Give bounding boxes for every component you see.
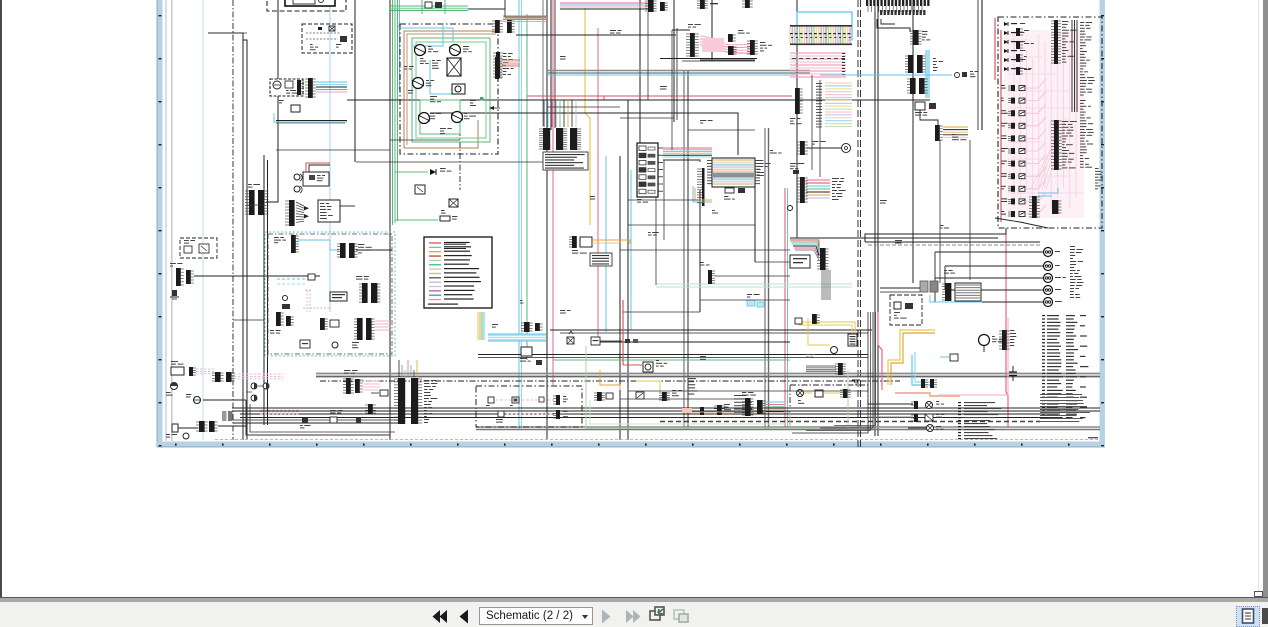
legend swatch 12: [429, 290, 441, 292]
wire v fine x672: [671, 30, 673, 150]
conn small x708: [708, 270, 712, 284]
monitor box top-left: [285, 0, 335, 6]
alternator sym: [183, 433, 189, 439]
orange jog: [600, 370, 620, 390]
lavender bundle bl: [260, 409, 300, 411]
wire h fine y225: [628, 224, 755, 226]
switch S9: [539, 397, 544, 402]
wire h green pair right: [656, 283, 852, 285]
gray connector cluster: [920, 281, 928, 292]
top connector strips x870: [866, 0, 868, 6]
stacked connectors mid: [908, 55, 914, 73]
legend swatch 5: [429, 259, 441, 261]
notes list center-bottom: [958, 402, 961, 403]
wire h fine y107: [547, 106, 620, 108]
small parts left of stack: [795, 88, 800, 114]
right gray bar: [1263, 0, 1268, 597]
wire v green mid: [526, 14, 528, 360]
green wire tap b: [395, 219, 438, 221]
wire v15: [796, 0, 798, 238]
fan connector: [820, 248, 826, 270]
ground sym mid: [852, 379, 860, 381]
page icon: [1243, 609, 1254, 623]
bulkhead connector bank: [398, 378, 405, 424]
scroll corner notch: [1254, 591, 1263, 597]
lamp L3: [927, 425, 934, 432]
horn trio: [251, 383, 257, 389]
legend swatch 3: [429, 251, 441, 253]
exit wires below box: [865, 228, 1006, 242]
blue path mid: [912, 355, 930, 385]
green node: [480, 97, 484, 101]
round connectors column: [1044, 248, 1053, 257]
wire h fine y312: [623, 311, 700, 313]
wire jog left mid: [247, 204, 264, 206]
right scrollbar light line: [1258, 0, 1259, 597]
cyan stub right: [820, 74, 952, 76]
connector col cab1: [291, 235, 296, 253]
lavender dashed wires in box: [496, 399, 556, 401]
enclosure small left dashed: [180, 238, 217, 258]
first page button: [440, 610, 448, 623]
solenoid B1: [415, 45, 426, 56]
sheet inner frame: [165, 0, 167, 441]
engine connector strip: [496, 52, 500, 78]
sensor X2: [449, 199, 458, 207]
connector bottom of box: [1032, 196, 1037, 218]
wire v fine x656: [655, 197, 657, 285]
resistor R3: [440, 216, 450, 221]
cyan band wide: [488, 334, 546, 341]
top mini cluster 2: [745, 0, 750, 8]
legend box: [424, 237, 492, 308]
wire v gray bus c: [977, 0, 979, 130]
toolbar body: [0, 602, 1268, 627]
wire h fine y262: [755, 261, 790, 263]
small mod x915: [915, 102, 925, 110]
wire v fine x820: [819, 80, 821, 177]
labels right of block: [757, 160, 763, 161]
wire v11: [673, 0, 675, 122]
enclosure right big dashed: [998, 17, 1102, 228]
connector cluster left CL1: [176, 268, 181, 286]
wire list right: [1042, 315, 1045, 316]
legend swatch 10: [429, 281, 441, 283]
relay K4: [498, 411, 504, 417]
fuse panel stack: [637, 143, 658, 197]
wire top jog: [468, 0, 505, 9]
wires to circle column: [934, 252, 936, 302]
bottom bus lines: [232, 407, 1100, 409]
wires down from fan: [821, 270, 823, 300]
wire bus v1 dash-dot: [232, 0, 234, 440]
cyan parts low: [747, 300, 755, 306]
connector top J3: [495, 20, 500, 33]
enclosure engine box dashed: [400, 24, 498, 154]
nested corner lines: [792, 312, 868, 433]
connector stack mid-bl: [346, 378, 351, 394]
sheet border band right: [1100, 0, 1106, 447]
conn b3: [662, 392, 667, 401]
brown bundle to right: [503, 15, 547, 17]
operator cluster: [800, 177, 805, 203]
breaker rows right box: [1011, 85, 1015, 91]
wire v blue b: [605, 156, 607, 332]
wire v red-blue pair: [784, 188, 786, 428]
wire h long mid: [347, 99, 930, 101]
scatter labels mid: [560, 56, 566, 57]
top pink bundle: [560, 2, 648, 4]
salmon band path: [895, 393, 960, 396]
bottom lavender dashed: [215, 439, 1100, 441]
green wire tap a: [395, 171, 428, 173]
enclosure bottom-mid dashed: [890, 295, 922, 325]
relay in box: [815, 390, 823, 397]
wire v blue c: [630, 170, 632, 330]
tall connector right mid: [1054, 120, 1059, 170]
wire v10: [639, 0, 641, 143]
fuse F20: [215, 372, 221, 382]
radio box: [303, 172, 329, 186]
harness connector HC1: [308, 78, 313, 98]
amp box: [318, 200, 340, 222]
part number: [1088, 437, 1098, 438]
connector mid J8: [913, 30, 919, 45]
speaker SP1: [294, 174, 300, 180]
component cluster in box2: [318, 27, 322, 30]
wire h gray bus top: [548, 70, 810, 72]
wires to lamps: [868, 403, 913, 405]
bundle fuse to ECM: [663, 147, 712, 149]
wire h mid e: [598, 341, 790, 343]
sensor cyan small: [950, 354, 958, 361]
wire v fine x664: [663, 160, 665, 240]
ECM text table: [543, 152, 588, 170]
parts in yellow area: [795, 318, 802, 324]
wire green bus top-left: [392, 0, 394, 225]
connector pair CL2: [249, 190, 255, 215]
cyan stub parts: [955, 73, 960, 78]
wires up from ECM bank: [543, 100, 545, 127]
cyan wires in engine box: [412, 25, 443, 46]
wire h fine y162: [356, 161, 543, 163]
big connector w rows: [945, 283, 951, 301]
mini blocks pair: [625, 339, 630, 343]
wire h top a: [516, 34, 676, 36]
wire h pair f: [478, 354, 868, 356]
drop wires from strips: [877, 19, 910, 32]
capacitor sym: [1009, 371, 1017, 373]
wire h green long: [553, 359, 790, 361]
legend swatch 13: [429, 294, 441, 296]
cyan wire in box: [1038, 188, 1058, 193]
enclosure bottom-left dashed: [476, 386, 582, 427]
solenoid B3: [413, 78, 424, 89]
wire v cyan pair mid: [518, 0, 520, 430]
wires around fan: [672, 29, 690, 31]
yellow-orange path big: [888, 330, 935, 385]
wire v fine x812: [811, 75, 813, 170]
wire h dashdot: [320, 380, 900, 382]
legend swatch 6: [429, 264, 441, 266]
solenoid B2: [450, 45, 461, 56]
motor circle right: [979, 335, 990, 346]
fan-out connector CL3: [289, 200, 295, 226]
green box loop top: [421, 0, 423, 14]
toolbar gray band: [0, 598, 1268, 602]
legend swatch 11: [429, 286, 441, 288]
lavender dashed wires bl: [196, 368, 214, 370]
yellow wires in box: [804, 392, 812, 394]
wire h mid a: [276, 120, 347, 122]
wire v pink b: [597, 28, 599, 340]
wire h fine y130: [688, 129, 755, 131]
top mini blocks green: [425, 2, 432, 8]
wire v17: [912, 0, 914, 283]
enclosure bottom dash-dot right: [790, 385, 868, 408]
lamp L2 conn: [914, 414, 918, 422]
labels right of circles: [1070, 246, 1075, 247]
parts below block: [725, 188, 734, 193]
wire bus v3 pair: [263, 155, 265, 425]
wire v cyan a: [399, 0, 401, 90]
wire v13: [711, 0, 713, 60]
dash panel connector: [690, 33, 695, 57]
relay K3: [556, 395, 560, 405]
prev page button: [460, 610, 469, 624]
wire v6: [389, 0, 391, 440]
component stack right: [1002, 330, 1007, 350]
next page button disabled: [602, 610, 611, 624]
pink fan wires: [700, 36, 750, 45]
bottom-left area wires: [246, 400, 390, 435]
wire v gray bus a: [683, 70, 685, 430]
yellow loop wires right: [795, 322, 855, 340]
wire bus v2: [208, 33, 247, 440]
enclosure cab box cyan dotted: [265, 232, 395, 356]
green loop wires: [412, 38, 490, 142]
red wire turn: [622, 300, 624, 365]
wire v red right: [994, 18, 996, 80]
connector in box: [843, 389, 848, 398]
note paragraph right: [1040, 394, 1082, 395]
wire h top b: [679, 58, 757, 60]
top bundle gray: [505, 16, 547, 18]
wire h fine y300: [700, 299, 790, 301]
cab small parts: [308, 274, 315, 280]
wire v9: [619, 156, 621, 440]
wire v cyan left: [202, 0, 204, 440]
cab feed connector: [745, 398, 751, 416]
ground stud left: [172, 290, 177, 296]
bus bar lines right: [1071, 20, 1073, 112]
legend swatch 8: [429, 272, 441, 274]
pink band rows: [790, 52, 846, 54]
legend swatch 4: [429, 255, 441, 257]
lavender dashes cab: [305, 289, 312, 291]
sheet border band bottom: [157, 442, 1105, 448]
orange wire ks: [592, 240, 630, 244]
small module: [291, 105, 300, 112]
wire v14: [754, 160, 756, 262]
relay pair b1: [597, 392, 602, 401]
bottom cluster of strip area: [800, 141, 805, 155]
module small: [415, 185, 425, 194]
cab cluster A: [340, 243, 346, 258]
sheet combobox: [479, 607, 593, 625]
speaker SP2: [294, 186, 300, 192]
sheet border band left: [157, 0, 163, 447]
flasher sym: [567, 337, 574, 344]
partial icon right edge: [1262, 608, 1268, 624]
wire v12: [699, 190, 701, 312]
wire v yellow: [585, 8, 590, 225]
cab cluster E w pink: [357, 318, 363, 340]
page panel toggle button: [1236, 606, 1260, 627]
notes list small: [688, 378, 696, 379]
wires horn trio: [258, 385, 264, 387]
legend swatch 9: [429, 277, 441, 279]
wire v fine x970: [969, 140, 971, 280]
colored row stack: [825, 82, 852, 84]
wire v red mid: [603, 96, 605, 100]
wire jog left mid2: [233, 319, 264, 321]
small cluster left of bank: [380, 390, 388, 396]
wire v cyan band mid-right: [925, 50, 930, 98]
green bundle top-mid: [390, 5, 468, 7]
buzzer circle: [643, 362, 653, 372]
box below band: [521, 347, 532, 356]
parts in bottom-mid box: [894, 302, 901, 309]
section divider dashed: [857, 0, 859, 447]
gray block pair: [222, 411, 227, 421]
bl connector x365: [368, 404, 373, 414]
salmon patch: [682, 408, 692, 413]
wire h fine 1: [208, 32, 247, 34]
ECM connector bank J1: [543, 128, 550, 150]
wire v7: [459, 130, 461, 190]
solenoid B4: [419, 113, 430, 124]
connector to gauges: [297, 80, 301, 95]
conn b4: [700, 407, 704, 415]
cab switch panel: [330, 292, 347, 301]
cyan dashed wires cab: [277, 278, 307, 280]
top right mini cluster: [700, 0, 705, 9]
enclosure top-left 2 dashed: [302, 24, 352, 53]
bl small blocks: [302, 418, 308, 423]
cab cluster D: [320, 318, 325, 330]
wire v blue light: [329, 0, 331, 312]
cyan loop border: [797, 12, 852, 40]
wire v16 pair: [874, 0, 876, 436]
bulkhead labels: [424, 380, 429, 381]
connector J4: [495, 57, 499, 79]
labels right col inside box: [1080, 22, 1084, 23]
legend swatch 1: [429, 242, 441, 244]
pin column with loops: [702, 168, 705, 206]
pink vert dashes cab: [306, 290, 308, 312]
sensor box with X: [447, 58, 461, 76]
wire h fine y250: [620, 249, 790, 251]
copy sheet icon disabled: [674, 610, 684, 619]
pink fan blocks: [728, 34, 733, 42]
relay small rows upper: [1016, 28, 1020, 36]
arrow sym engine: [489, 106, 494, 110]
horn left: [171, 383, 178, 390]
red wire in right box: [1000, 30, 1002, 222]
wire h mid d: [550, 329, 872, 331]
keyswitch cluster mid: [572, 236, 577, 248]
diode column: [1004, 22, 1008, 26]
cyan wire drop: [274, 113, 347, 122]
gauge cluster: [270, 79, 303, 96]
conn table mid: [590, 253, 612, 266]
wire h fine y140: [390, 139, 460, 141]
sender with circle: [452, 84, 465, 94]
fuse strip tall: [1054, 20, 1058, 64]
labels bottom center: [734, 395, 746, 396]
solenoid B5: [452, 112, 463, 123]
top connector TP1: [648, 0, 654, 12]
wire h fine y200: [628, 199, 700, 201]
battery cluster bottom-left: [171, 367, 184, 375]
diode D5: [430, 169, 436, 175]
engine box extra labels: [420, 58, 424, 59]
legend swatch 2: [429, 246, 441, 248]
conn pins mid2: [921, 379, 925, 388]
enclosure top-left dashed: [267, 0, 346, 11]
wire h fine y150: [276, 149, 390, 151]
legend swatch 7: [429, 268, 441, 270]
wires left of gray cluster: [880, 287, 920, 289]
wire v fine x505: [504, 0, 506, 17]
gray bundle block: [806, 365, 836, 367]
legend swatch 14: [429, 299, 441, 301]
bottom dashes bus: [660, 421, 1040, 423]
small parts op: [793, 170, 799, 174]
legend note line: [428, 304, 458, 305]
drop to orange cluster: [920, 110, 938, 125]
wire v fine x940: [939, 140, 941, 283]
orange cluster: [935, 125, 940, 141]
colored riser bundle: [477, 312, 479, 340]
switch sym b2: [636, 392, 644, 399]
sheet border ticks: [159, 15, 162, 16]
power distribution block: [712, 158, 755, 187]
wire h fine y118: [620, 117, 674, 119]
bottom gray bus: [476, 426, 1100, 428]
strip second row: [880, 10, 882, 15]
display cluster: [790, 255, 810, 268]
app left edge line: [0, 0, 2, 598]
bottom strip extra wires: [628, 390, 868, 392]
key switch: [194, 397, 201, 404]
pink loop right: [878, 312, 882, 390]
cab cluster B: [362, 283, 368, 303]
brown loop wires: [404, 31, 496, 148]
cab bottom parts: [300, 340, 310, 348]
wire h red long: [527, 95, 792, 97]
lamp L1: [914, 401, 918, 409]
wires up from bulkhead: [398, 360, 400, 377]
wire v red lower-right: [1006, 234, 1008, 428]
lamp in box: [797, 390, 804, 397]
content bottom line: [0, 597, 1268, 598]
conn box mid: [591, 337, 600, 345]
pale green loop bottom: [586, 346, 848, 428]
wire v pink a: [552, 0, 554, 385]
last page button disabled: [626, 610, 634, 623]
